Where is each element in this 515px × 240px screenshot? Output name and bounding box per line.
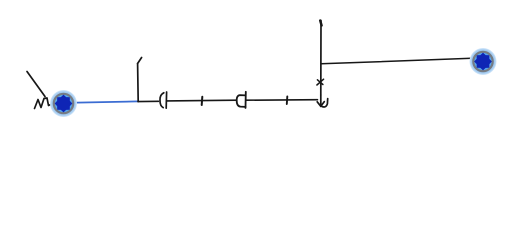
antenna scribble (left sketch)	[27, 72, 53, 109]
riser top serif	[320, 21, 321, 26]
wire (blue) from left node to stub	[64, 101, 138, 103]
junction arrow/hook where bottom wire meets riser	[317, 95, 328, 107]
node N2 (right terminal icon)	[470, 48, 497, 75]
wire (bottom horizontal, right segment)	[246, 99, 318, 102]
loop component (sketched flag/loop on wire)	[237, 92, 246, 108]
wire (bottom horizontal, left segment)	[138, 100, 159, 102]
wire (top horizontal to right node)	[321, 58, 471, 64]
wire (bottom horizontal, middle segment)	[167, 99, 237, 102]
node N1 (left terminal icon)	[50, 90, 77, 117]
junction tick T1	[201, 97, 204, 105]
wire stub up from blue wire end, with tick at top	[138, 58, 142, 102]
capacitor C1	[160, 92, 167, 108]
x mark on riser wire	[317, 79, 324, 85]
wire (vertical riser)	[320, 21, 322, 96]
junction tick T2	[286, 96, 289, 104]
